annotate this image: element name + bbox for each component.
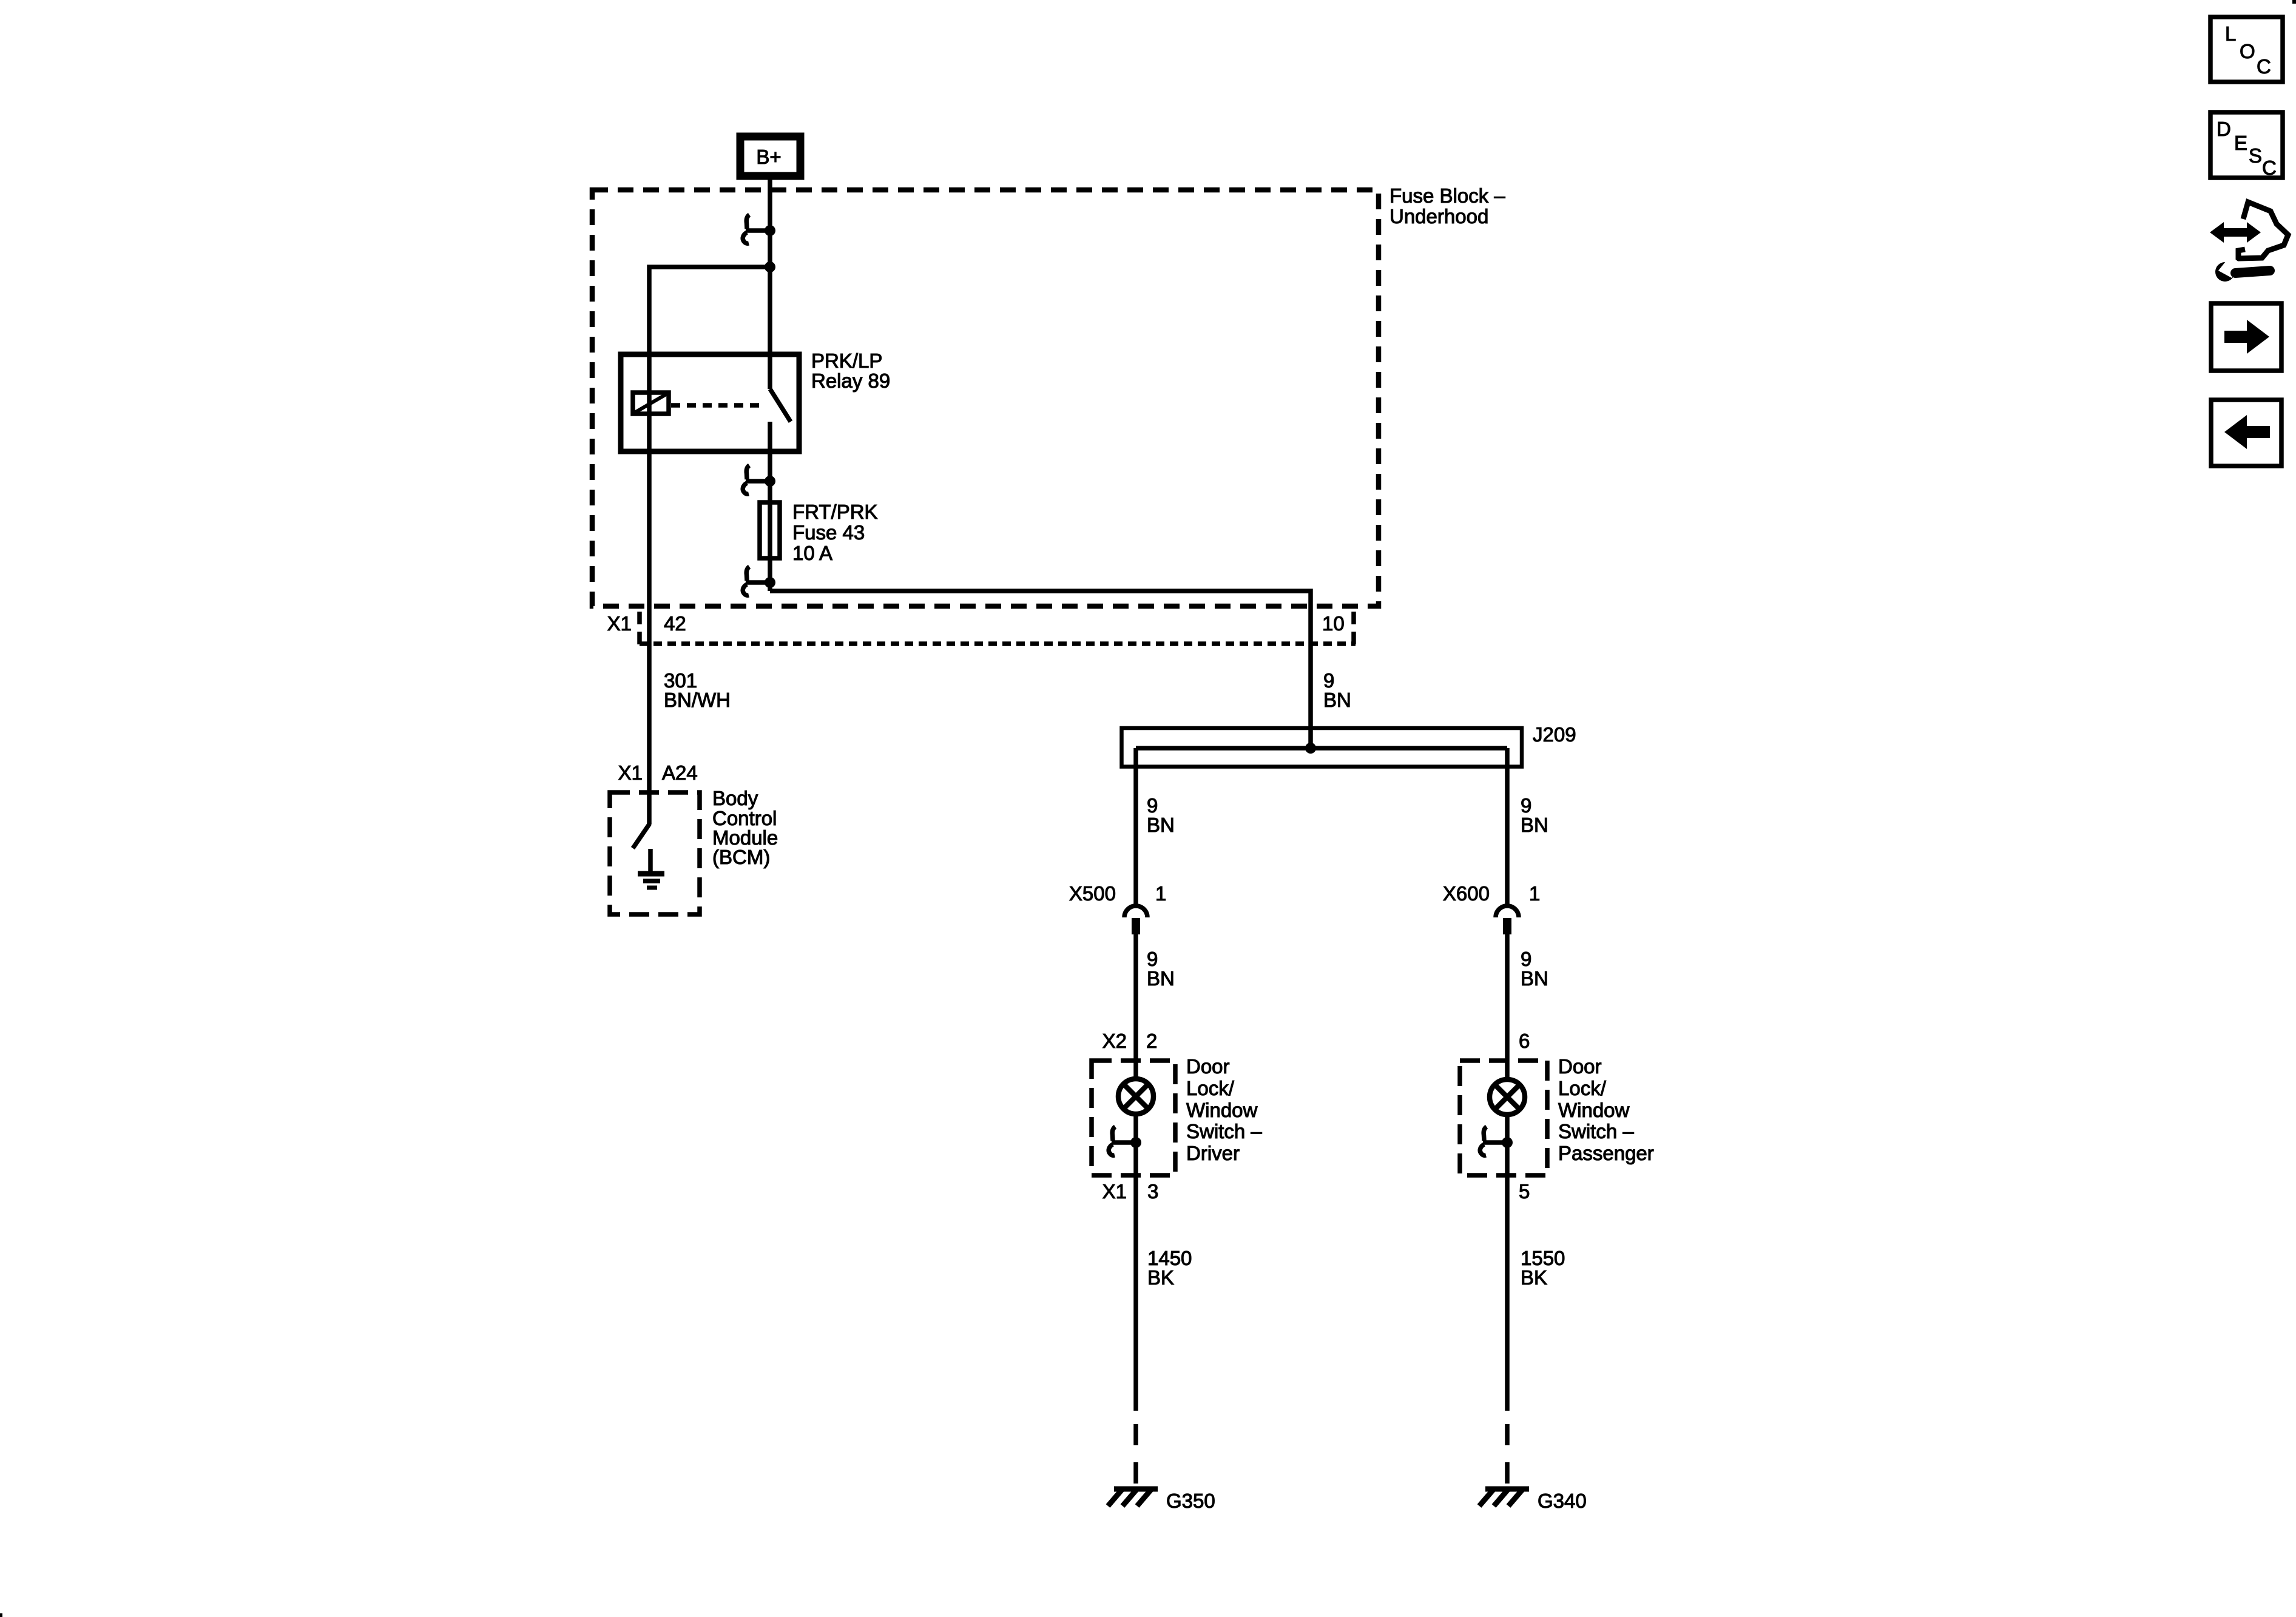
svg-text:X1: X1	[618, 761, 643, 784]
Body Control Module (BCM) dashed box	[610, 787, 778, 914]
ground G340	[1479, 1489, 1587, 1512]
svg-text:Driver: Driver	[1186, 1142, 1240, 1164]
relay coil	[633, 393, 669, 414]
BCM internal ground	[638, 849, 664, 888]
wire label 301 BN/WH	[664, 669, 731, 711]
wire junction to coil branch down to BCM	[649, 267, 770, 824]
svg-text:S: S	[2249, 144, 2262, 167]
wrench	[2215, 262, 2235, 282]
corner speck top right	[2292, 0, 2296, 4]
node junction at relay feed	[765, 262, 775, 272]
wire J209 left leg to X500	[1133, 748, 1138, 904]
svg-text:10: 10	[1322, 612, 1345, 635]
svg-text:Switch –: Switch –	[1186, 1120, 1262, 1143]
wire passenger switch to ground	[1505, 1178, 1510, 1411]
svg-text:Switch –: Switch –	[1558, 1120, 1634, 1143]
svg-text:BK: BK	[1147, 1266, 1174, 1289]
svg-text:6: 6	[1519, 1030, 1530, 1052]
lamp (passenger illumination bulb)	[1490, 1079, 1525, 1115]
svg-text:Lock/: Lock/	[1186, 1077, 1235, 1099]
Fuse Block - Underhood dashed enclosure	[592, 184, 1505, 606]
relay switch arm	[770, 389, 791, 422]
svg-text:X1: X1	[1102, 1180, 1127, 1203]
svg-text:Underhood: Underhood	[1389, 205, 1488, 228]
svg-text:BK: BK	[1521, 1266, 1547, 1289]
wire X600 to passenger switch	[1505, 934, 1510, 1079]
wire label 1550 BK	[1521, 1247, 1565, 1289]
Door Lock/Window Switch - Passenger dashed box	[1460, 1055, 1654, 1175]
wire lamp to terminal (driver)	[1133, 1114, 1138, 1178]
svg-text:2: 2	[1146, 1030, 1157, 1052]
node B+ (battery feed box)	[740, 137, 800, 176]
icon DESC box	[2210, 112, 2283, 179]
svg-text:A24: A24	[662, 761, 698, 784]
svg-text:Fuse Block –: Fuse Block –	[1389, 184, 1505, 207]
connector X2 pin 2 row at driver switch	[1102, 1030, 1158, 1052]
svg-text:Window: Window	[1558, 1099, 1630, 1121]
svg-text:L: L	[2225, 22, 2236, 45]
terminal clip at B+ feed	[743, 215, 775, 243]
svg-text:O: O	[2240, 40, 2255, 62]
connector X1 pin 3 row below driver switch	[1102, 1180, 1159, 1203]
wire B+ down to relay switch	[768, 176, 772, 389]
icon forward arrow box	[2211, 303, 2281, 371]
svg-text:Window: Window	[1186, 1099, 1258, 1121]
svg-text:Fuse 43: Fuse 43	[792, 521, 865, 544]
svg-text:FRT/PRK: FRT/PRK	[792, 501, 878, 523]
wire J209 right leg to X600	[1505, 748, 1510, 904]
terminal clip below fuse	[743, 567, 775, 595]
svg-text:1: 1	[1155, 882, 1166, 905]
Door Lock/Window Switch - Driver dashed box	[1092, 1055, 1262, 1175]
wire label 9 BN (left leg)	[1147, 794, 1175, 836]
svg-text:Door: Door	[1186, 1055, 1230, 1078]
svg-text:G350: G350	[1166, 1490, 1215, 1512]
svg-text:E: E	[2234, 132, 2247, 154]
wire dashed ground lead (right)	[1505, 1424, 1510, 1488]
connector X1 row (fuse block pins 42 / 10)	[607, 612, 1356, 646]
svg-text:Lock/: Lock/	[1558, 1077, 1607, 1099]
svg-text:X2: X2	[1102, 1030, 1127, 1052]
svg-text:PRK/LP: PRK/LP	[811, 349, 882, 372]
svg-text:Body: Body	[712, 787, 758, 809]
svg-text:C: C	[2257, 55, 2271, 78]
fuse FRT/PRK Fuse 43 10 A	[760, 501, 878, 564]
svg-text:BN: BN	[1323, 689, 1351, 711]
wire label 9 BN (below X600)	[1521, 948, 1548, 990]
icon LOC box	[2210, 17, 2283, 82]
splice pack J209	[1122, 723, 1576, 767]
terminal clip in passenger switch	[1480, 1127, 1513, 1155]
terminal outline	[2238, 202, 2288, 258]
svg-text:BN: BN	[1147, 967, 1175, 990]
svg-text:D: D	[2217, 118, 2231, 140]
wire label 9 BN (feed to J209)	[1323, 669, 1351, 711]
svg-text:B+: B+	[756, 146, 781, 168]
svg-text:(BCM): (BCM)	[712, 846, 770, 868]
lamp (driver illumination bulb)	[1118, 1079, 1153, 1114]
wire label 9 BN (right leg)	[1521, 794, 1548, 836]
relay actuation dashed link	[671, 403, 765, 408]
svg-text:X500: X500	[1069, 882, 1116, 905]
svg-text:BN: BN	[1147, 814, 1175, 836]
icon back arrow box	[2211, 400, 2281, 466]
wire X500 to driver switch	[1133, 934, 1138, 1079]
svg-text:BN: BN	[1521, 814, 1548, 836]
wire label 1450 BK	[1147, 1247, 1192, 1289]
ground G350	[1108, 1489, 1215, 1512]
wire label 9 BN (below X500)	[1147, 948, 1175, 990]
svg-text:42: 42	[664, 612, 686, 635]
wire driver switch to ground	[1133, 1178, 1138, 1411]
wire J209 bus bar	[1136, 746, 1507, 751]
svg-text:10 A: 10 A	[792, 542, 832, 564]
svg-text:J209: J209	[1533, 723, 1576, 746]
connector X1 A24 pin row at BCM	[618, 761, 698, 784]
connector X600 pin 1	[1443, 882, 1540, 934]
wire dashed ground lead (left)	[1133, 1424, 1138, 1488]
corner speck bottom left	[0, 1613, 2, 1617]
BCM internal switch arm	[633, 823, 650, 848]
svg-text:C: C	[2262, 157, 2277, 179]
svg-text:X600: X600	[1443, 882, 1490, 905]
svg-text:3: 3	[1147, 1180, 1158, 1203]
svg-text:Relay 89: Relay 89	[811, 370, 890, 392]
terminal clip above fuse	[743, 465, 775, 494]
relay PRK/LP Relay 89	[621, 349, 890, 451]
svg-text:Door: Door	[1558, 1055, 1602, 1078]
svg-text:G340: G340	[1538, 1490, 1587, 1512]
svg-text:Passenger: Passenger	[1558, 1142, 1654, 1164]
wire relay switch to fuse	[768, 422, 772, 591]
svg-text:BN: BN	[1521, 967, 1548, 990]
wire lamp to terminal (passenger)	[1505, 1115, 1510, 1178]
wire fuse output to pin 10 and down to J209	[770, 591, 1311, 748]
svg-text:BN/WH: BN/WH	[664, 689, 731, 711]
svg-text:X1: X1	[607, 612, 632, 635]
node splice junction	[1305, 743, 1316, 754]
icon connector-repair (double arrow, terminal outline, wrench)	[2210, 202, 2288, 282]
svg-text:1: 1	[1529, 882, 1540, 905]
double-headed arrow	[2220, 228, 2251, 237]
terminal clip in driver switch	[1109, 1127, 1141, 1155]
svg-text:5: 5	[1519, 1180, 1530, 1203]
connector X500 pin 1	[1069, 882, 1166, 934]
